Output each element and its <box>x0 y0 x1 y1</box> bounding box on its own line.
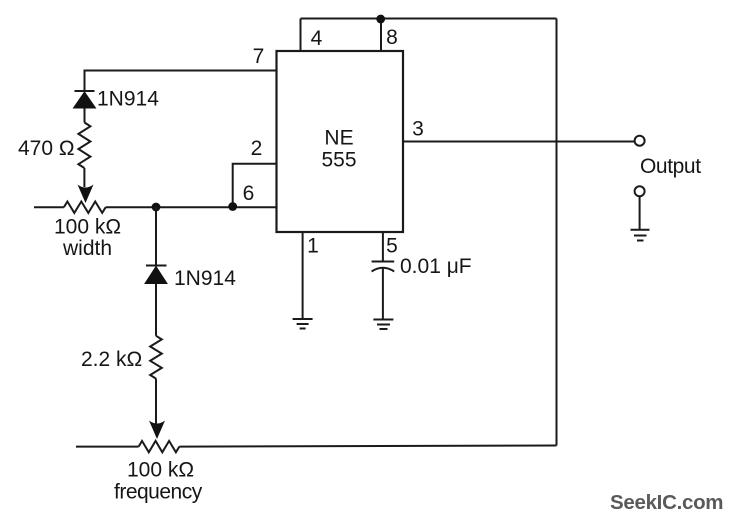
wire mid rail left end <box>34 206 64 208</box>
wire mid rail junction down to diode D2 <box>155 207 157 266</box>
svg-text:Output: Output <box>640 155 701 178</box>
svg-text:100 kΩ: 100 kΩ <box>54 216 121 239</box>
wire bottom rail <box>76 446 139 448</box>
diode D2 1N914 cathode bar <box>146 265 167 267</box>
svg-text:3: 3 <box>412 118 424 141</box>
output return terminal circle <box>635 186 645 196</box>
wire diode D1 to resistor R1 <box>84 108 86 123</box>
resistor R3 2.2 kohm zigzag <box>150 336 162 379</box>
svg-text:5: 5 <box>386 235 398 258</box>
capacitor C1 top plate <box>372 261 395 263</box>
capacitor C1 bottom curved plate <box>372 268 395 272</box>
svg-text:0.01 μF: 0.01 μF <box>400 255 472 278</box>
svg-text:7: 7 <box>253 45 265 68</box>
svg-text:8: 8 <box>386 26 398 49</box>
wire pin 2 jog <box>233 164 277 207</box>
resistor R1 470 ohm zigzag <box>78 123 90 169</box>
wire resistor R3 to wiper arrow <box>155 379 157 424</box>
diode D1 1N914 triangle <box>74 92 96 108</box>
node junction dot pin8/top rail <box>376 15 385 24</box>
node junction dot pin2 branch on mid rail <box>228 202 237 211</box>
diode D1 1N914 cathode bar <box>75 90 95 92</box>
svg-text:555: 555 <box>321 149 356 172</box>
wire capacitor C1 to ground <box>382 269 384 320</box>
svg-text:frequency: frequency <box>114 481 203 504</box>
ground symbol at output return <box>631 230 650 241</box>
svg-text:SeekIC.com: SeekIC.com <box>610 491 723 514</box>
svg-text:6: 6 <box>243 182 255 205</box>
wiper arrow onto potentiometer R2 <box>78 185 94 204</box>
ground symbol at pin 1 <box>293 319 313 329</box>
svg-text:1N914: 1N914 <box>97 88 159 111</box>
op-amp U1 NE555 body <box>277 51 404 232</box>
wire top rail pins 4-8 to right vertical <box>301 18 557 20</box>
wire pin 8 riser <box>380 19 382 52</box>
wire pin 1 to ground <box>302 232 304 319</box>
wire resistor R1 to wiper arrow <box>83 168 85 187</box>
svg-text:470 Ω: 470 Ω <box>18 137 75 160</box>
diode D2 1N914 triangle <box>145 267 167 284</box>
wire diode D2 to resistor R3 <box>155 284 157 336</box>
wire output return to ground <box>639 197 641 230</box>
svg-text:4: 4 <box>311 27 323 50</box>
svg-text:100 kΩ: 100 kΩ <box>127 459 194 482</box>
potentiometer R4 100k frequency zigzag <box>139 441 180 452</box>
svg-text:NE: NE <box>324 127 353 150</box>
wire mid rail to pin 6 <box>106 206 277 208</box>
wire pin 5 to capacitor C1 <box>382 232 384 262</box>
wire bottom rail right segment <box>179 446 556 447</box>
wiper arrow onto potentiometer R4 <box>149 421 165 440</box>
svg-text:2: 2 <box>251 137 263 160</box>
output terminal circle <box>635 136 645 146</box>
wire pin 4 riser <box>300 19 302 52</box>
node junction dot diode branch on mid rail <box>152 203 161 212</box>
svg-text:2.2 kΩ: 2.2 kΩ <box>81 348 142 371</box>
wire right vertical from top rail down to bottom rail <box>556 19 558 446</box>
ground symbol at capacitor C1 <box>373 320 393 330</box>
svg-text:1N914: 1N914 <box>174 267 236 290</box>
wire pin 3 to output terminal <box>403 141 634 143</box>
svg-text:1: 1 <box>307 235 319 258</box>
svg-text:width: width <box>62 237 112 260</box>
potentiometer R2 100k width zigzag <box>64 202 106 213</box>
wire pin 7 to left branch <box>85 71 277 92</box>
